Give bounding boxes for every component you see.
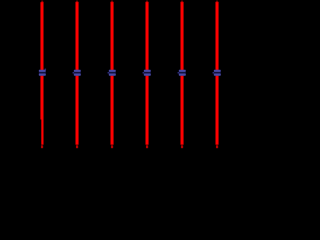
- bar 6 (red vertical line at x=217): [216, 1, 219, 149]
- marker 1 (blue double-bar at x=42): [39, 69, 46, 76]
- marker 6 (blue double-bar at x=217): [213, 70, 221, 76]
- chart canvas: [0, 0, 249, 156]
- bar 3 (red vertical line at x=112): [111, 1, 114, 149]
- marker 3 (blue double-bar at x=112): [108, 70, 116, 76]
- bar 4 (red vertical line at x=147): [146, 1, 149, 149]
- bar 5 (red vertical line at x=182): [181, 1, 184, 149]
- marker 5 (blue double-bar at x=182): [178, 70, 186, 76]
- bar 2 (red vertical line at x=77): [76, 1, 79, 149]
- bar 1 (red vertical line at x=42): [40, 1, 43, 149]
- marker 2 (blue double-bar at x=77): [73, 70, 81, 76]
- marker 4 (blue double-bar at x=147): [143, 70, 151, 76]
